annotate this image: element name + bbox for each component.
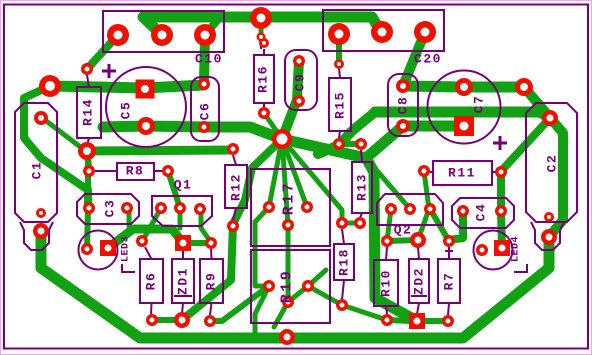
svg-text:R10: R10 — [379, 269, 394, 297]
svg-text:R18: R18 — [337, 248, 352, 276]
svg-text:R19: R19 — [279, 269, 296, 304]
svg-text:C20: C20 — [414, 52, 442, 67]
svg-text:C3: C3 — [103, 199, 118, 218]
svg-text:C4: C4 — [474, 203, 489, 222]
svg-text:R11: R11 — [448, 166, 476, 181]
svg-text:C6: C6 — [198, 102, 213, 121]
svg-text:R6: R6 — [144, 272, 159, 291]
svg-text:ZD1: ZD1 — [176, 267, 191, 295]
svg-text:R14: R14 — [81, 98, 96, 126]
svg-text:Q2: Q2 — [394, 223, 413, 238]
svg-text:C1: C1 — [30, 161, 45, 180]
svg-text:Q1: Q1 — [174, 178, 193, 193]
svg-text:C7: C7 — [472, 95, 487, 114]
svg-text:R9: R9 — [204, 272, 219, 291]
svg-text:C9: C9 — [293, 73, 308, 92]
svg-text:R13: R13 — [355, 173, 370, 201]
svg-text:LED4: LED4 — [511, 236, 522, 262]
svg-text:C8: C8 — [396, 96, 411, 115]
svg-text:C2: C2 — [545, 154, 560, 173]
svg-text:R8: R8 — [126, 164, 145, 179]
svg-text:R12: R12 — [229, 173, 244, 201]
svg-text:LED3: LED3 — [121, 236, 132, 262]
svg-text:R16: R16 — [256, 65, 271, 93]
svg-text:C10: C10 — [195, 52, 223, 67]
svg-text:R17: R17 — [281, 181, 298, 216]
svg-text:R7: R7 — [442, 272, 457, 291]
svg-text:R15: R15 — [333, 91, 348, 119]
svg-text:C5: C5 — [119, 101, 134, 120]
svg-text:ZD2: ZD2 — [412, 267, 427, 295]
